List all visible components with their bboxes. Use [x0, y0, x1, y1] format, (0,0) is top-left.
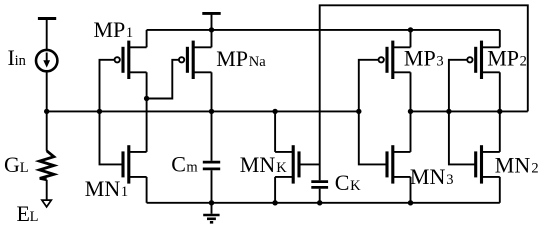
- power rail symbol (left, above Iin): [38, 19, 56, 50]
- wire: resistor to EL terminal: [46, 180, 48, 200]
- wire: right bus (second stage node): [411, 110, 528, 112]
- node: Iin / GL junction: [44, 109, 49, 114]
- node: rail / middle power junction: [209, 27, 214, 32]
- svg-text:MN: MN: [240, 152, 276, 177]
- node: Cm / ground junction: [209, 200, 214, 205]
- svg-text:K: K: [276, 160, 287, 176]
- wire: MP3 gate to bus: [359, 60, 379, 112]
- node: bus end / MP3-MN3 gate junction: [356, 109, 361, 114]
- svg-text:E: E: [17, 201, 30, 226]
- label MP1: [94, 17, 134, 42]
- label MP3: [404, 46, 444, 71]
- terminal EL arrow: [42, 200, 51, 207]
- node: MP3/MN3 drain on right bus: [408, 109, 413, 114]
- svg-text:L: L: [20, 160, 29, 176]
- svg-text:MP: MP: [404, 46, 436, 71]
- transistor MPNa (PMOS): [179, 41, 212, 79]
- node: MNK source on ground bus: [272, 200, 277, 205]
- label MNK: [240, 152, 287, 177]
- wire: MP1 gate to bus: [100, 60, 115, 112]
- label MN2: [495, 153, 539, 178]
- label Iin: [8, 45, 27, 70]
- wire: MN3 source down to ground bus: [410, 177, 412, 203]
- transistor MP1 (PMOS): [115, 41, 147, 79]
- label CK: [335, 170, 361, 195]
- label MPNa: [216, 46, 266, 71]
- wire: MNK drain up to bus: [274, 111, 276, 151]
- wire: MP2 source up to rail end: [499, 30, 501, 47]
- ground symbol: [203, 203, 219, 223]
- node: MPNa drain / Cm junction on bus: [209, 109, 214, 114]
- svg-text:3: 3: [446, 172, 453, 188]
- wire: MN3 drain up to right bus: [410, 111, 412, 151]
- wire: MN2 source down to ground bus end: [499, 177, 501, 203]
- transistor MN1 (NMOS): [123, 145, 147, 183]
- svg-text:C: C: [335, 170, 350, 195]
- wire: MN3 gate from bus: [359, 111, 387, 164]
- svg-text:1: 1: [126, 25, 133, 41]
- wire: MP1 drain down through bus to MN1 drain: [146, 72, 148, 152]
- wire: ground bus: [147, 202, 500, 204]
- label MN3: [410, 164, 454, 189]
- transistor MN2 (NMOS): [476, 145, 500, 183]
- svg-text:G: G: [4, 152, 20, 177]
- wire: MN2 gate from right bus: [449, 111, 476, 164]
- svg-text:MP: MP: [487, 46, 519, 71]
- svg-text:C: C: [171, 152, 186, 177]
- power rail symbol (middle, above MPNa): [202, 13, 220, 30]
- svg-text:MP: MP: [216, 46, 248, 71]
- label Cm: [171, 152, 198, 177]
- svg-text:Na: Na: [249, 54, 266, 70]
- wire: MN1 gate from bus: [100, 111, 123, 164]
- svg-text:2: 2: [520, 54, 527, 70]
- wire: MP2 gate to right bus: [449, 60, 467, 112]
- transistor MP3 (PMOS): [379, 41, 411, 79]
- wire: main bus (first stage output node): [47, 110, 359, 112]
- svg-text:MN: MN: [85, 176, 121, 201]
- svg-text:3: 3: [436, 54, 443, 70]
- wire: MPNa gate connection: [147, 60, 179, 99]
- capacitor CK: [311, 182, 328, 203]
- label GL: [4, 152, 29, 177]
- wire: MPNa drain down to bus: [211, 72, 213, 111]
- label MN1: [85, 176, 128, 201]
- wire: MP2 drain down to right bus: [499, 72, 501, 111]
- wire: MN2 drain up to right bus: [499, 111, 501, 151]
- svg-text:MN: MN: [410, 164, 446, 189]
- wire: feedback line from CK node to top and right: [320, 5, 528, 180]
- capacitor Cm: [203, 111, 220, 202]
- transistor MN3 (NMOS): [387, 145, 411, 183]
- node: MP2/MN2 drain / feedback junction: [497, 109, 502, 114]
- svg-text:m: m: [186, 160, 198, 176]
- wire: MNK source down to ground bus: [274, 177, 276, 203]
- wire: MP3 drain down to right bus: [410, 72, 412, 111]
- wire: current source to bus and down to resistor: [46, 72, 48, 151]
- current source Iin: [36, 50, 57, 71]
- node: MNK drain on bus: [272, 109, 277, 114]
- svg-text:2: 2: [531, 161, 538, 177]
- transistor MNK (NMOS, mirrored): [275, 145, 320, 183]
- label MP2: [487, 46, 527, 71]
- transistor MP2 (PMOS): [467, 41, 500, 79]
- svg-text:MN: MN: [495, 153, 531, 178]
- svg-text:MP: MP: [94, 17, 126, 42]
- node: CK bottom on ground bus: [317, 200, 322, 205]
- wire: MN1 source down to ground bus: [146, 177, 148, 203]
- node: MN3 source on ground bus: [408, 200, 413, 205]
- wire: MPNa source up to rail: [211, 30, 213, 47]
- svg-text:1: 1: [121, 184, 128, 200]
- wire: MP3 source up to rail: [410, 30, 412, 47]
- node: MP1 drain / MPNa gate junction: [144, 96, 149, 101]
- wire: MP1 source up to VDD rail: [146, 30, 148, 47]
- svg-text:L: L: [30, 209, 39, 225]
- wire: VDD rail: [147, 29, 500, 31]
- resistor GL: [40, 151, 54, 180]
- node: MP3 source on rail: [408, 27, 413, 32]
- label EL: [17, 201, 39, 226]
- svg-text:in: in: [15, 53, 27, 69]
- svg-text:K: K: [350, 178, 361, 194]
- node: MP1/MN1 gate junction on bus: [97, 109, 102, 114]
- node: MP2/MN2 gate on right bus: [446, 109, 451, 114]
